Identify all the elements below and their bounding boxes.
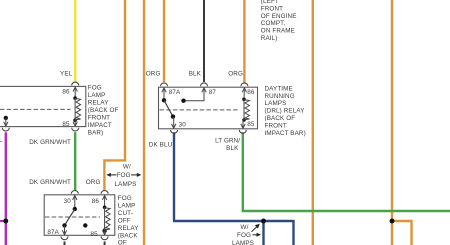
svg-text:W/: W/: [123, 164, 131, 171]
svg-text:ORG: ORG: [146, 71, 161, 78]
svg-text:LT GRN/: LT GRN/: [215, 138, 240, 145]
svg-text:86: 86: [92, 198, 100, 205]
pin 85 arrow and shaft: [102, 230, 106, 235]
wire DK BLU from DRL relay pin 30 down and right, with branches down: [173, 132, 294, 245]
svg-text:LAMPS: LAMPS: [232, 240, 254, 245]
connector arc at pin 86 top: [101, 191, 108, 194]
relay box U1 fog lamp relay (left edge off-canvas): [0, 86, 86, 126]
svg-text:85: 85: [91, 231, 99, 238]
svg-text:OF: OF: [118, 240, 127, 245]
svg-text:87A: 87A: [47, 229, 59, 236]
label W/ FOG LAMPS with arrows (lower): [232, 224, 261, 245]
svg-text:OF ENGINE: OF ENGINE: [261, 13, 297, 20]
svg-text:FOG: FOG: [237, 232, 251, 239]
svg-text:L: L: [0, 137, 3, 144]
dashed actuator line in fog lamp relay: [0, 108, 71, 110]
svg-text:LAMP: LAMP: [118, 202, 136, 209]
svg-text:LAMPS: LAMPS: [265, 100, 287, 107]
svg-text:IMPACT: IMPACT: [88, 122, 112, 129]
switch blade 87A to 30: [164, 100, 173, 116]
svg-text:BLK: BLK: [226, 145, 239, 152]
svg-text:85: 85: [247, 121, 255, 128]
svg-text:LAMP: LAMP: [88, 92, 106, 99]
wire ORG into DRL relay pin 87A: [163, 0, 165, 82]
coil of fog lamp relay: [73, 96, 80, 122]
label W/ FOG LAMPS with arrows: [106, 164, 141, 188]
svg-text:IMPACT BAR): IMPACT BAR): [265, 130, 306, 137]
svg-text:DAYTIME: DAYTIME: [265, 85, 293, 92]
label FOG LAMP RELAY (BACK OF FRONT IMPACT BAR): [88, 85, 119, 137]
dashed actuator line in cut-off relay: [45, 216, 100, 218]
wire LT GRN/BLK from DRL relay pin 85 down then right to edge: [242, 132, 450, 211]
connector arc below pin 85: [72, 128, 79, 131]
svg-text:OFF: OFF: [118, 217, 131, 224]
svg-text:FRONT: FRONT: [261, 5, 283, 12]
svg-text:DK BLU: DK BLU: [149, 142, 173, 149]
svg-text:ORG: ORG: [228, 71, 243, 78]
svg-text:(DRL) RELAY: (DRL) RELAY: [265, 108, 306, 115]
svg-text:LAMPS: LAMPS: [115, 181, 137, 188]
note (LEFT FRONT OF ENGINE COMPT, ON FRAME RAIL): [261, 0, 297, 42]
pin 87A arrow, shaft and contact: [162, 88, 166, 103]
svg-text:BLK: BLK: [189, 71, 202, 78]
pin 86 arrow and shaft: [242, 88, 246, 99]
relay box U3 fog lamp cut-off relay: [44, 195, 115, 236]
svg-text:86: 86: [62, 88, 70, 95]
svg-text:BAR): BAR): [88, 129, 104, 136]
label FOG LAMP CUT-OFF RELAY (BACK OF: [118, 195, 139, 245]
connector arc below pin 30: [171, 130, 178, 133]
wire ORG full-height vertical x=312.8: [312, 0, 314, 245]
svg-text:FOG: FOG: [118, 195, 132, 202]
wire stub below pin 87A: [64, 242, 66, 245]
node junction on magenta wire: [3, 219, 8, 224]
pin 86 arrow and shaft: [102, 196, 106, 208]
svg-text:W/: W/: [241, 224, 249, 231]
wire ORG stepped down into fog lamp cut-off relay pin 86: [104, 0, 126, 191]
wire ORG full-height vertical x=392 with right branch: [392, 0, 412, 245]
connector arc at pin 87: [201, 83, 208, 86]
pin 87A contact, shaft and arrow: [62, 223, 66, 235]
pin 30 arrow, shaft and contact: [73, 196, 77, 212]
svg-text:(BACK OF: (BACK OF: [265, 115, 296, 122]
pin 85 arrow and shaft: [73, 120, 77, 126]
connector arc at pin 30 top: [71, 191, 78, 194]
coil of cut-off relay: [103, 206, 110, 233]
wire stub below pin 85: [104, 242, 106, 245]
unused NO contact dot: [83, 223, 87, 227]
svg-text:DK GRN/WHT: DK GRN/WHT: [29, 179, 71, 186]
left pin contact dot and exit of fog lamp relay: [4, 116, 8, 126]
wire YEL vertical into fog lamp relay pin 86: [74, 0, 76, 82]
label DAYTIME RUNNING LAMPS (DRL) RELAY (BACK OF FRONT IMPACT BAR): [265, 85, 306, 137]
svg-text:CUT-: CUT-: [118, 210, 133, 217]
svg-text:87: 87: [209, 89, 217, 96]
connector arc at pin 87A: [161, 83, 168, 86]
svg-text:DK GRN/WHT: DK GRN/WHT: [29, 139, 71, 146]
svg-text:30: 30: [64, 198, 72, 205]
connector arc below pin 85: [239, 130, 246, 133]
connector arc below pin 87A: [61, 236, 68, 239]
svg-text:RELAY: RELAY: [88, 100, 109, 107]
pin 85 arrow and shaft: [241, 120, 245, 128]
svg-text:COMPT,: COMPT,: [261, 20, 286, 27]
svg-text:(BACK OF: (BACK OF: [88, 107, 119, 114]
pin 86 arrow and shaft: [73, 87, 77, 98]
wire DK GRN/WHT from fog lamp relay pin 85 to cut-off relay pin 30: [74, 132, 76, 191]
svg-text:30: 30: [179, 121, 187, 128]
svg-text:FOG: FOG: [117, 172, 131, 179]
svg-text:FRONT: FRONT: [265, 123, 287, 130]
wire ORG into DRL relay pin 86: [243, 0, 245, 83]
coil of DRL relay: [242, 98, 249, 122]
svg-text:RAIL): RAIL): [261, 35, 278, 42]
switch blade 30 to 87A: [65, 209, 75, 225]
svg-text:FOG: FOG: [88, 85, 102, 92]
svg-text:(BACK: (BACK: [118, 232, 139, 239]
svg-text:86: 86: [247, 89, 255, 96]
wire PPL (magenta) from fog lamp relay left pin down, junction and stub to left edge: [0, 132, 6, 245]
relay box U2 daytime running lamps DRL relay: [159, 87, 258, 129]
connector arc at pin 86: [241, 83, 248, 86]
svg-text:87A: 87A: [169, 89, 181, 96]
svg-text:FRONT: FRONT: [88, 115, 110, 122]
svg-text:ON FRAME: ON FRAME: [261, 28, 295, 35]
svg-text:ORG: ORG: [86, 179, 101, 186]
dashed actuator line in DRL relay: [160, 109, 240, 111]
svg-text:85: 85: [62, 121, 70, 128]
pin 87 arrow, elbow and contact: [181, 88, 206, 103]
connector arc below pin 85: [101, 236, 108, 239]
connector arc below left pin: [2, 128, 9, 131]
node junction on DK BLU wire: [261, 219, 266, 224]
svg-text:YEL: YEL: [60, 70, 73, 77]
svg-text:RELAY: RELAY: [118, 225, 139, 232]
connector arc at pin 86 top: [72, 82, 79, 85]
wire BLK into DRL relay pin 87: [203, 0, 205, 82]
svg-text:RUNNING: RUNNING: [265, 93, 295, 100]
node junction on ORG x=392: [390, 219, 395, 224]
pin 30 contact, shaft and arrow: [171, 114, 176, 128]
wire ORG full-height vertical x=144: [143, 0, 145, 245]
